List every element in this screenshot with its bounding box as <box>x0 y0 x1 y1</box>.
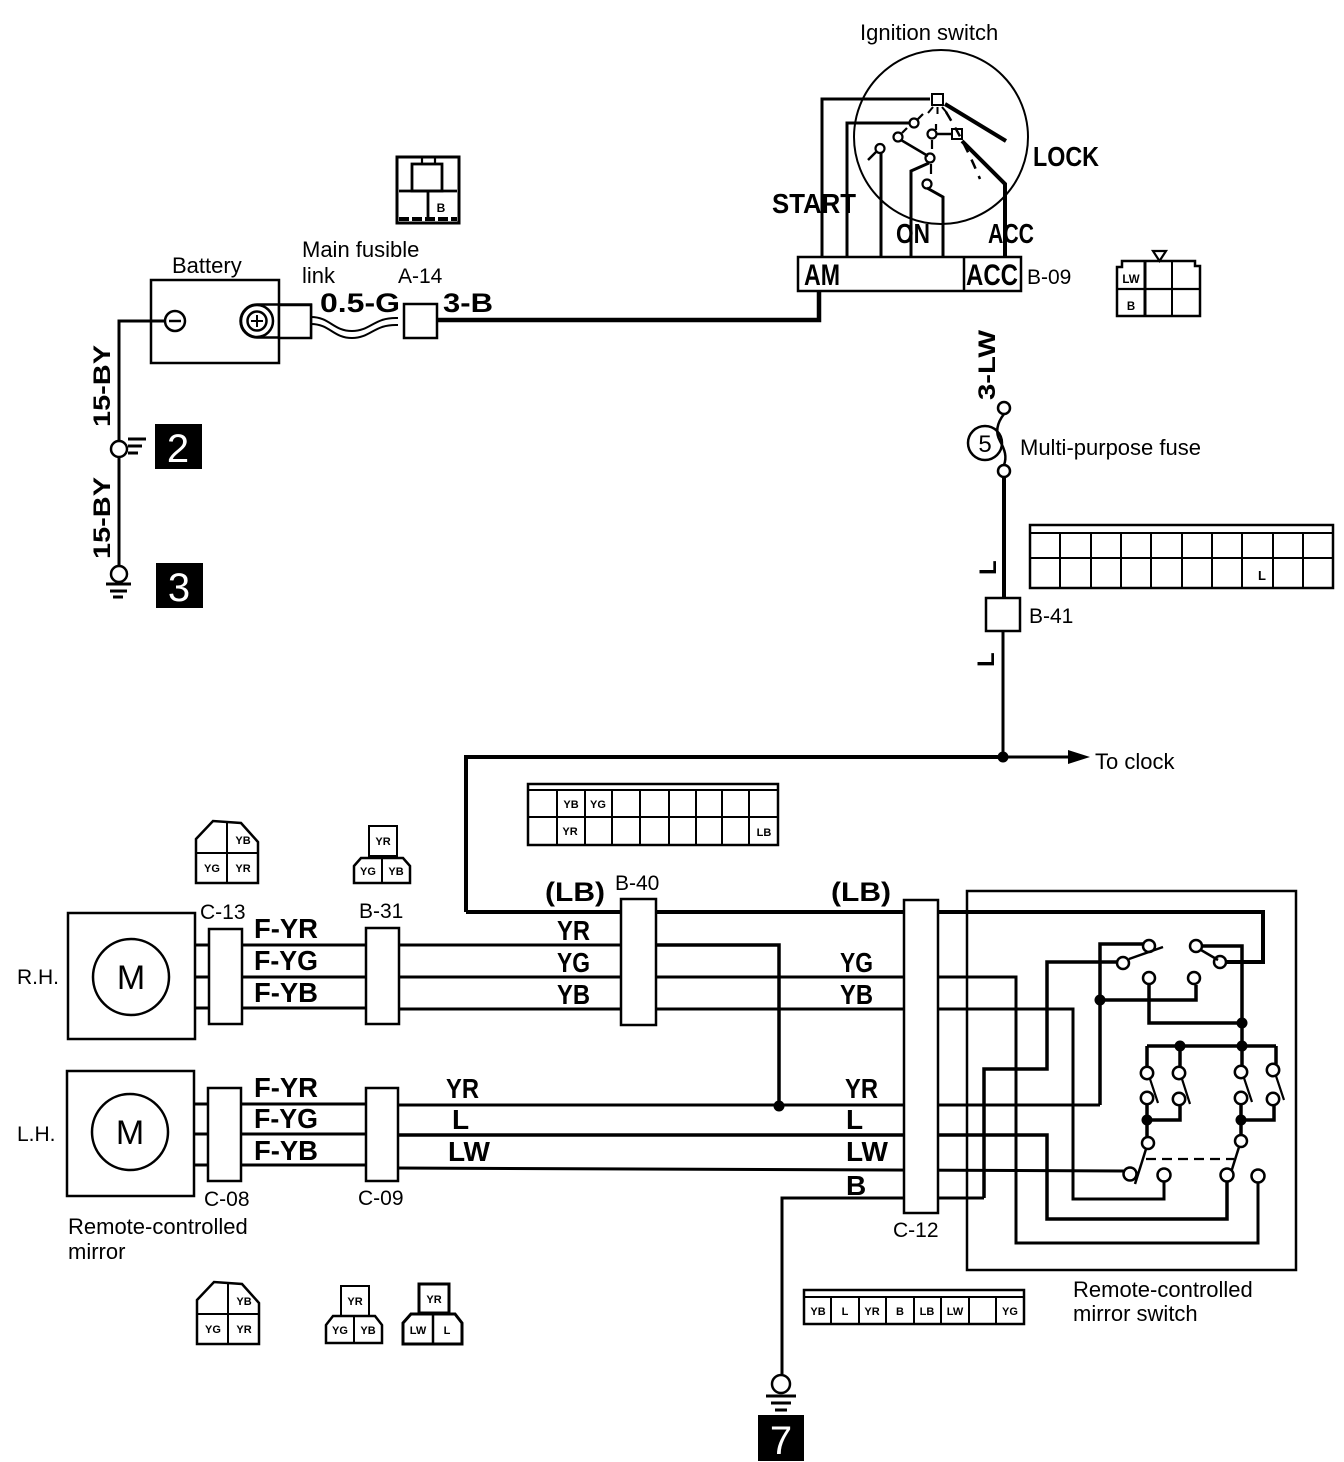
fuse block strip <box>1030 525 1333 588</box>
svg-text:L: L <box>975 560 1002 575</box>
ignition ON blade <box>901 140 928 156</box>
svg-text:YB: YB <box>557 979 590 1010</box>
junction node to clock <box>998 752 1009 763</box>
mid contact left <box>1143 972 1155 984</box>
svg-text:R.H.: R.H. <box>17 966 59 989</box>
wire B-41 to junction <box>1002 631 1005 757</box>
svg-text:2: 2 <box>167 427 189 471</box>
node YR junction <box>1095 995 1106 1006</box>
svg-text:YG: YG <box>204 863 220 875</box>
svg-text:LW: LW <box>947 1306 964 1318</box>
svg-text:YG: YG <box>557 947 590 978</box>
arrow to clock <box>1003 756 1070 759</box>
svg-text:YG: YG <box>590 799 606 811</box>
svg-text:F-YG: F-YG <box>254 1103 318 1134</box>
svg-text:LW: LW <box>410 1325 427 1337</box>
svg-text:YR: YR <box>845 1073 878 1104</box>
connector C-09 pictogram <box>326 1286 382 1343</box>
svg-text:B: B <box>896 1306 904 1318</box>
ignition switch circle <box>854 50 1028 224</box>
wire from YR junction to contact stub <box>1100 985 1196 1000</box>
mid contact right <box>1188 972 1200 984</box>
RH mirror motor box <box>68 913 195 1039</box>
svg-text:mirror: mirror <box>68 1239 125 1264</box>
svg-text:Battery: Battery <box>172 253 242 278</box>
svg-text:LW: LW <box>1122 274 1139 286</box>
bottom left switch pivot contact <box>1142 1137 1154 1149</box>
wire lead contact A <box>847 123 909 258</box>
connector C-08 pictogram <box>197 1282 259 1344</box>
wire YR riser and bus <box>1100 944 1144 1105</box>
top switch A upper contact <box>1143 940 1155 952</box>
top switch A left contact <box>1117 957 1129 969</box>
battery positive terminal <box>241 305 312 338</box>
battery box <box>151 280 279 363</box>
connector C-09 <box>366 1088 398 1181</box>
LH motor circle M <box>92 1094 168 1170</box>
bottom left switch blade <box>1135 1149 1146 1184</box>
wire top right contact to right riser <box>1202 946 1242 1046</box>
svg-text:YG: YG <box>332 1325 348 1337</box>
svg-text:mirror switch: mirror switch <box>1073 1301 1198 1326</box>
bottom right switch pivot contact <box>1235 1135 1247 1147</box>
svg-text:YB: YB <box>563 799 578 811</box>
wire LB main run <box>466 912 1263 962</box>
fuse upper terminal <box>998 402 1010 414</box>
svg-text:YG: YG <box>360 866 376 878</box>
svg-text:YB: YB <box>236 1296 251 1308</box>
svg-text:B: B <box>437 201 446 215</box>
ignition ACC blade <box>962 141 1005 258</box>
connector B-31 pictogram <box>354 826 410 883</box>
ignition small tick at contact C <box>868 152 876 160</box>
svg-text:3-LW: 3-LW <box>974 330 1001 400</box>
svg-text:LB: LB <box>920 1306 935 1318</box>
top switch B blade <box>1201 950 1218 960</box>
wire fuse to B-41 <box>1002 477 1006 600</box>
lower bus horizontal <box>1147 1044 1276 1048</box>
RH motor stubs <box>195 945 212 1008</box>
wire junction to LB drop <box>466 757 1003 912</box>
svg-text:START: START <box>772 188 856 219</box>
wire YG RH B-40 to switch <box>652 977 1258 1243</box>
wire lead contact C <box>880 153 883 258</box>
top switch A blade <box>1129 947 1163 959</box>
svg-text:YR: YR <box>235 863 250 875</box>
svg-text:YR: YR <box>375 836 390 848</box>
wire YB RH B-40 to switch <box>652 1009 1164 1199</box>
tag box 2 <box>155 424 202 469</box>
ignition contact ticks <box>902 114 936 174</box>
svg-text:YG: YG <box>840 947 873 978</box>
svg-text:B-09: B-09 <box>1027 266 1071 289</box>
svg-text:C-08: C-08 <box>204 1188 250 1211</box>
connector C-12 <box>904 900 938 1213</box>
wire B path inside box <box>984 962 1118 1198</box>
svg-text:L: L <box>444 1325 451 1337</box>
connector C-08 <box>208 1088 241 1181</box>
svg-text:YB: YB <box>235 835 250 847</box>
fuse lower terminal <box>998 465 1010 477</box>
ignition dashed blade <box>946 112 980 179</box>
bus stubs to contacts <box>1147 1046 1276 1067</box>
connector B-09 pictogram <box>1117 251 1200 316</box>
connector B-31 <box>366 928 399 1024</box>
ground 2 <box>111 439 146 457</box>
svg-text:(LB): (LB) <box>545 877 605 907</box>
svg-text:F-YB: F-YB <box>254 977 318 1008</box>
svg-text:YB: YB <box>840 979 873 1010</box>
svg-text:L: L <box>452 1104 469 1135</box>
svg-text:F-YG: F-YG <box>254 945 318 976</box>
svg-text:L: L <box>842 1306 849 1318</box>
svg-text:M: M <box>116 1114 144 1152</box>
node bus left <box>1175 1041 1186 1052</box>
svg-text:AM: AM <box>804 259 840 292</box>
mirror switch box <box>967 891 1296 1270</box>
connector C-13 <box>209 929 242 1024</box>
svg-text:B: B <box>846 1170 866 1201</box>
column blades <box>1150 1076 1284 1104</box>
ground 3 <box>106 566 131 597</box>
wire ground2 to ground3 <box>118 457 121 566</box>
svg-text:Ignition switch: Ignition switch <box>860 20 998 45</box>
svg-text:B-41: B-41 <box>1029 605 1073 628</box>
svg-text:3: 3 <box>168 566 190 610</box>
connector A-14 inline box <box>404 304 437 338</box>
top switch B right contact <box>1214 956 1226 968</box>
svg-text:YR: YR <box>864 1306 879 1318</box>
svg-text:C-13: C-13 <box>200 901 246 924</box>
fusible link block at battery <box>279 305 311 338</box>
junction YR <box>774 1101 785 1112</box>
svg-text:F-YR: F-YR <box>254 913 318 944</box>
svg-text:L.H.: L.H. <box>17 1123 56 1146</box>
svg-text:B-40: B-40 <box>615 872 659 895</box>
svg-text:To clock: To clock <box>1095 749 1175 774</box>
svg-text:F-YB: F-YB <box>254 1135 318 1166</box>
bottom right switch contacts <box>1221 1169 1234 1182</box>
svg-text:3-B: 3-B <box>443 288 493 318</box>
svg-text:LB: LB <box>757 827 772 839</box>
wire lead contact E <box>911 163 929 258</box>
svg-text:Main fusible: Main fusible <box>302 237 419 262</box>
column 1 lower link <box>1147 1104 1180 1120</box>
svg-text:A-14: A-14 <box>398 265 443 288</box>
ignition pivot contact <box>928 94 947 114</box>
ignition LOCK blade <box>945 104 1006 141</box>
svg-text:Remote-controlled: Remote-controlled <box>1073 1277 1253 1302</box>
svg-text:B: B <box>1127 301 1135 313</box>
ignition contact circles <box>876 119 937 189</box>
svg-text:link: link <box>302 263 336 288</box>
connector B-41 <box>986 598 1020 631</box>
dashed link between bottom switches <box>1146 1158 1234 1160</box>
svg-text:YR: YR <box>562 826 577 838</box>
node right riser upper <box>1237 1018 1248 1029</box>
svg-text:5: 5 <box>978 431 991 458</box>
connector C-12 pictogram strip <box>804 1290 1024 1324</box>
svg-text:(LB): (LB) <box>831 877 891 907</box>
ignition ACC contact square <box>952 129 962 139</box>
wire LW LH to switch <box>396 1168 1124 1171</box>
svg-text:ON: ON <box>896 218 930 249</box>
svg-text:YG: YG <box>1002 1306 1018 1318</box>
svg-text:YR: YR <box>347 1296 362 1308</box>
fusible link wavy wire 0.5-G <box>311 317 398 331</box>
column 3 lower link <box>1241 1104 1274 1120</box>
four column contacts row2 <box>1141 1092 1279 1105</box>
svg-text:LW: LW <box>846 1136 889 1167</box>
svg-text:L: L <box>846 1104 863 1135</box>
svg-text:B-31: B-31 <box>359 900 403 923</box>
wire 3-B to ignition AM <box>437 288 819 320</box>
svg-text:0.5-G: 0.5-G <box>320 288 400 318</box>
fuse element wire <box>997 414 1005 465</box>
svg-text:YR: YR <box>557 915 590 946</box>
tag box 7 <box>758 1415 804 1461</box>
node bus right <box>1237 1041 1248 1052</box>
wire lead contact F <box>927 188 943 258</box>
svg-text:YG: YG <box>205 1324 221 1336</box>
connector A-14 pictogram <box>397 157 459 223</box>
svg-text:YR: YR <box>446 1073 479 1104</box>
connector LW-L pictogram <box>403 1284 462 1344</box>
wire contact D to ACC square <box>937 133 952 136</box>
wire battery negative to ground <box>119 321 166 441</box>
connector B-40 <box>621 899 656 1025</box>
svg-text:ACC: ACC <box>988 218 1034 249</box>
svg-text:L: L <box>1258 568 1266 583</box>
svg-text:LOCK: LOCK <box>1033 141 1099 172</box>
svg-text:YB: YB <box>388 866 403 878</box>
four column contacts row1 <box>1141 1064 1279 1079</box>
connector C-13 pictogram <box>196 821 258 883</box>
bottom right switch blade <box>1228 1147 1239 1182</box>
svg-text:15-BY: 15-BY <box>89 345 116 427</box>
svg-text:7: 7 <box>770 1419 792 1462</box>
svg-text:C-09: C-09 <box>358 1187 404 1210</box>
top switch B upper contact <box>1190 940 1202 952</box>
wire from mid contact left down to right bus <box>1149 984 1242 1023</box>
multi-purpose fuse circle 5 <box>968 426 1002 460</box>
wire AM lead <box>822 99 930 258</box>
wire B to ground <box>782 1198 984 1374</box>
battery negative terminal <box>165 311 185 331</box>
LH mirror motor box <box>67 1071 194 1196</box>
wire L LH to switch <box>396 1135 1227 1219</box>
svg-text:ACC: ACC <box>966 259 1018 292</box>
svg-text:Multi-purpose fuse: Multi-purpose fuse <box>1020 435 1201 460</box>
LH motor stubs <box>194 1104 212 1165</box>
ground at B wire <box>766 1375 796 1410</box>
wires C-08 to C-09 <box>240 1104 370 1165</box>
svg-text:F-YR: F-YR <box>254 1072 318 1103</box>
tag box 3 <box>156 563 203 608</box>
connector bar B-09 <box>798 257 1021 291</box>
svg-text:YR: YR <box>426 1294 441 1306</box>
wire YR LH to switch <box>396 1104 1100 1107</box>
svg-text:YB: YB <box>810 1306 825 1318</box>
svg-text:YB: YB <box>360 1325 375 1337</box>
svg-text:Remote-controlled: Remote-controlled <box>68 1214 248 1239</box>
wires C-13 to B-31 <box>240 945 370 1008</box>
wire YR RH from B-40 down to LH YR <box>652 945 779 1106</box>
svg-text:15-BY: 15-BY <box>89 477 116 559</box>
svg-text:L: L <box>973 652 1000 667</box>
svg-text:M: M <box>117 959 145 997</box>
RH motor circle M <box>93 939 169 1015</box>
connector B-40 pictogram grid <box>528 784 778 845</box>
bottom left switch contacts <box>1124 1168 1137 1181</box>
svg-text:C-12: C-12 <box>893 1219 939 1242</box>
svg-text:YR: YR <box>236 1324 251 1336</box>
wires B-31 to B-40 <box>396 945 625 1009</box>
svg-text:LW: LW <box>448 1136 491 1167</box>
